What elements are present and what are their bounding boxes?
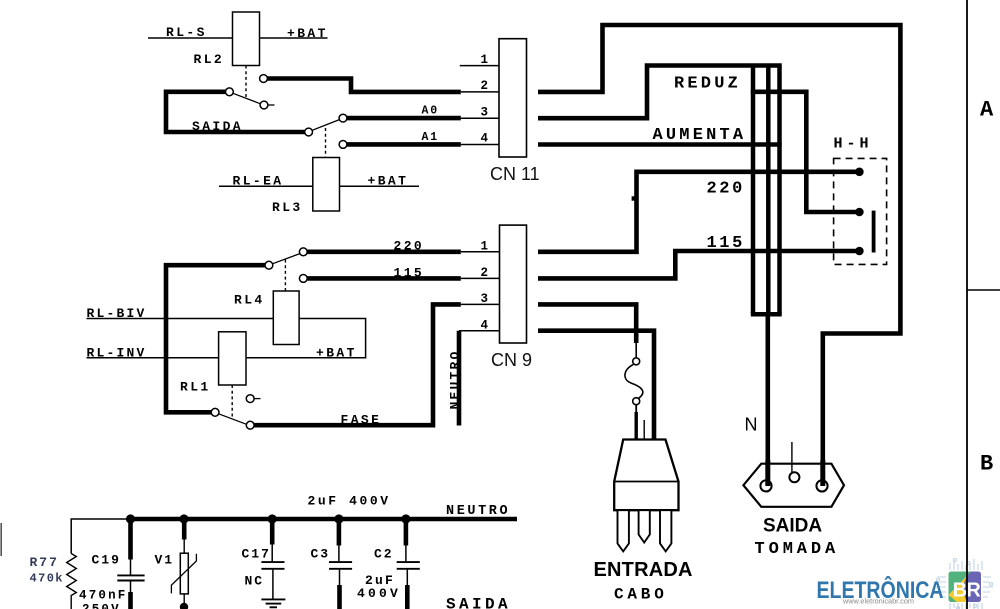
frame divider A/B	[967, 289, 1000, 291]
contact circle RL3 upper (A0)	[339, 114, 347, 122]
frame border right	[967, 0, 1000, 609]
contact circle RL1 lower (FASE)	[246, 421, 254, 429]
socket center hole	[789, 472, 799, 482]
220/115 wires to H-H	[538, 172, 859, 279]
svg-text:RL2: RL2	[194, 52, 225, 67]
svg-text:C3: C3	[311, 547, 331, 562]
svg-text:1: 1	[481, 240, 489, 254]
junction tick on 220 riser	[632, 196, 635, 200]
CN9 pin3 stub	[461, 303, 500, 305]
top-right routing	[538, 25, 900, 486]
dashed actuator link RL4	[284, 260, 286, 292]
wire CN9 pin1 to H-H top dot (220, thick)	[538, 172, 859, 252]
node junction V1	[179, 514, 188, 523]
CN9 pin1 stub	[461, 251, 500, 253]
relay coil RL1	[219, 332, 246, 385]
svg-text:A0: A0	[422, 105, 439, 118]
svg-text:REDUZ: REDUZ	[674, 75, 741, 94]
saida tomada socket	[743, 442, 844, 507]
CN9 body	[500, 225, 527, 343]
bus wire v2	[766, 66, 771, 315]
jumper block H-H	[834, 158, 887, 264]
wire CN11 pin2 to socket right pin (thick, around top)	[538, 25, 900, 486]
CN11 pin4 stub	[461, 144, 499, 146]
cable S-squiggle	[625, 364, 643, 398]
svg-text:FASE: FASE	[341, 413, 382, 428]
relay RL4 area	[87, 248, 461, 429]
socket outline (hexagon)	[743, 464, 844, 507]
wire FASE to CN9 pin3 (thick)	[254, 304, 461, 425]
svg-text:NEUTRO: NEUTRO	[447, 349, 462, 409]
svg-text:C19: C19	[92, 553, 121, 568]
pivot circle RL2	[226, 88, 234, 96]
wire SAIDA lower segment RL4 pivot to RL1 pivot (thick)	[166, 265, 265, 412]
bottom filter network	[1, 514, 517, 609]
wire RL-BIV (thin) with corner to +BAT net	[87, 319, 366, 358]
node junction C19	[126, 514, 135, 523]
svg-text:C2: C2	[374, 547, 394, 562]
wire CN11 pin3 REDUZ riser (thick)	[538, 66, 782, 119]
svg-text:RL3: RL3	[272, 200, 303, 215]
SAIDA bus	[166, 92, 305, 413]
wire RL2 coil to +BAT	[260, 37, 328, 39]
contact circle RL4 220	[299, 248, 307, 256]
svg-text:4: 4	[481, 132, 489, 146]
dashed actuator link RL2	[245, 66, 247, 98]
svg-text:115: 115	[394, 266, 425, 281]
switch arm RL3	[312, 120, 340, 131]
logo chip square	[949, 572, 982, 603]
wire REDUZ cross-link to H-H middle dot (thick)	[751, 92, 860, 212]
contact circle RL4 115	[299, 275, 307, 283]
plug prong middle	[639, 510, 650, 542]
H-H top dot	[855, 168, 864, 177]
bus wire v3	[777, 66, 782, 315]
contact circle RL3 lower (A1)	[339, 141, 347, 149]
svg-text:400V: 400V	[357, 586, 401, 601]
plug body ENTRADA	[614, 440, 678, 511]
switch arm RL2	[233, 93, 261, 104]
svg-text:CABO: CABO	[614, 586, 668, 604]
CN9 pin4 stub	[459, 330, 500, 332]
svg-text:RL-S: RL-S	[166, 25, 207, 40]
frame vertical line	[966, 0, 968, 609]
wire 115 to CN9 pin2 (thick)	[307, 276, 461, 281]
svg-text:2: 2	[481, 266, 489, 280]
wire cable to plug left (medium)	[635, 405, 637, 412]
svg-text:NC: NC	[245, 574, 265, 589]
svg-text:NEUTRO: NEUTRO	[446, 504, 510, 519]
socket left hole	[760, 480, 771, 491]
varistor V1	[182, 519, 187, 540]
plug prong left	[618, 510, 629, 551]
svg-text:C17: C17	[242, 547, 271, 562]
svg-text:+BAT: +BAT	[368, 173, 409, 188]
bus wire v1	[751, 66, 756, 315]
cable loop upper circle	[633, 358, 640, 365]
svg-text:250V: 250V	[82, 603, 121, 609]
bus bottom cap	[751, 312, 782, 317]
dashed actuator link RL1	[231, 385, 233, 417]
wire CN9 pin2 to H-H bottom dot (115, thick)	[538, 251, 859, 278]
contact circle RL1 upper with stub	[246, 395, 254, 403]
svg-text:N: N	[745, 415, 758, 435]
wire RL3 coil to +BAT	[340, 185, 420, 187]
CN11 pin1 stub	[460, 65, 499, 67]
dashed actuator link RL3	[325, 128, 327, 158]
svg-text:AUMENTA: AUMENTA	[653, 126, 747, 145]
svg-text:RL4: RL4	[234, 293, 265, 308]
capacitor C17 with ground	[270, 519, 275, 545]
switch arm RL1	[219, 414, 247, 424]
node junction C3	[334, 514, 343, 523]
svg-text:470nF: 470nF	[79, 589, 128, 603]
svg-text:220: 220	[394, 239, 425, 254]
wire NEUTRO bottom line (thick)	[127, 517, 517, 522]
wire RL2 NO contact to CN11 pin2 (thick)	[267, 79, 460, 92]
svg-text:H-H: H-H	[834, 136, 873, 153]
wire 220 to CN9 pin1 (thick)	[307, 250, 461, 255]
wire SAIDA upper segment to RL3 pivot (thick)	[166, 92, 305, 132]
plug prong right	[660, 510, 671, 551]
pivot circle RL1	[211, 408, 219, 416]
svg-text:SAIDA: SAIDA	[192, 119, 243, 134]
svg-text:RL-INV: RL-INV	[87, 345, 147, 360]
capacitor C19 leads and plates	[128, 519, 133, 560]
logo ELETRONICA BR	[817, 559, 994, 609]
ground symbol C17	[261, 598, 285, 600]
svg-text:4: 4	[481, 318, 489, 332]
wire N conductor into left hole	[765, 460, 770, 486]
wire RL-S to RL2 coil	[148, 37, 233, 39]
relay coil RL3	[313, 158, 340, 212]
svg-text:SAIDA: SAIDA	[763, 516, 822, 537]
wire CN11 pin4 AUMENTA (thick)	[538, 142, 782, 147]
wire fragment left edge	[0, 523, 2, 556]
svg-text:SAIDA: SAIDA	[446, 596, 511, 609]
wire right conductor into right hole	[820, 460, 825, 486]
connector CN9	[459, 225, 527, 425]
wire A0 to CN11 pin3 (thick)	[347, 116, 461, 121]
capacitor C3	[337, 519, 342, 546]
svg-text:115: 115	[707, 234, 745, 253]
CN11 body	[499, 39, 527, 157]
svg-text:2uF 400V: 2uF 400V	[308, 494, 391, 509]
node junction C2	[401, 514, 410, 523]
H-H jumper bar	[872, 211, 876, 253]
svg-text:A1: A1	[422, 131, 439, 144]
svg-text:ENTRADA: ENTRADA	[594, 559, 693, 581]
relay coil RL2	[233, 12, 260, 66]
wire RL-EA to RL3 coil	[219, 185, 313, 187]
svg-text:TOMADA: TOMADA	[755, 540, 840, 559]
svg-text:RL-EA: RL-EA	[233, 173, 284, 188]
wire CN9 pin3 to cable fuse point	[538, 304, 636, 343]
svg-text:www.eletronicabr.com: www.eletronicabr.com	[842, 597, 914, 606]
svg-text:220: 220	[707, 180, 745, 199]
pivot circle RL3	[305, 128, 313, 136]
wire NEUTRO thin left segment	[71, 519, 130, 554]
cable loop lower circle	[633, 398, 640, 405]
svg-text:V1: V1	[155, 553, 175, 568]
svg-text:470k: 470k	[30, 572, 64, 586]
relay RL2 area	[148, 12, 461, 109]
svg-text:A: A	[980, 98, 994, 123]
relay coil RL4	[273, 291, 299, 345]
svg-text:2: 2	[481, 79, 489, 93]
center pin stub	[791, 442, 793, 472]
node junction C17	[268, 514, 277, 523]
svg-text:+BAT: +BAT	[287, 26, 328, 41]
connector CN11	[460, 39, 527, 157]
wire NEUTRO vertical (thick)	[457, 331, 462, 426]
CN11 pin2 stub	[461, 91, 499, 93]
svg-text:+BAT: +BAT	[316, 345, 357, 360]
capacitor C2	[404, 519, 409, 546]
pivot circle RL4	[265, 261, 273, 269]
H-H middle dot	[855, 208, 864, 217]
CN9 pin2 stub	[461, 277, 500, 279]
svg-text:RL-BIV: RL-BIV	[87, 306, 147, 321]
wire plug second conductor (thin)	[643, 420, 645, 440]
svg-text:1: 1	[481, 53, 489, 67]
H-H bottom dot	[855, 247, 864, 256]
switch arm RL4	[272, 254, 300, 264]
relay RL3 area	[219, 114, 461, 211]
svg-text:3: 3	[481, 105, 489, 119]
CN11 pin3 stub	[461, 117, 499, 119]
resistor R77 zigzag	[67, 554, 77, 609]
logo circuit traces	[936, 559, 993, 609]
svg-text:3: 3	[481, 292, 489, 306]
svg-text:RL1: RL1	[180, 379, 211, 394]
entrada cable and plug	[538, 304, 679, 551]
H-H dashed box	[834, 158, 887, 264]
svg-text:B: B	[980, 452, 993, 477]
socket right hole	[816, 480, 827, 491]
svg-text:CN 11: CN 11	[490, 164, 540, 184]
wire A1 to CN11 pin4 (thick)	[347, 142, 461, 147]
wire bus to socket left pin N (thick)	[765, 314, 770, 486]
wire CN9 pin4 to plug right (thick)	[538, 331, 654, 440]
svg-text:CN 9: CN 9	[491, 350, 532, 370]
contact circle RL2 upper	[260, 75, 268, 83]
contact circle RL2 lower with stub	[260, 101, 268, 109]
svg-text:R77: R77	[30, 555, 59, 570]
